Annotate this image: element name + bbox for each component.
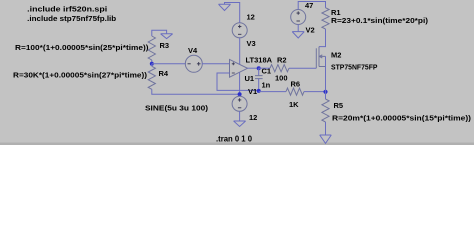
- wire R4 bottom to V1 rail: [152, 89, 240, 94]
- svg-text:100: 100: [275, 73, 288, 82]
- svg-text:LT318A: LT318A: [246, 55, 273, 64]
- svg-text:R5: R5: [334, 101, 344, 110]
- svg-text:U1: U1: [245, 74, 255, 83]
- node junction output/C1/R2: [257, 66, 261, 70]
- svg-text:C1: C1: [262, 66, 272, 75]
- wire feedback loop: [217, 73, 259, 90]
- resistor R4: [148, 66, 155, 89]
- V2 plus mark: [297, 11, 300, 14]
- ground (near R3): [161, 34, 173, 39]
- svg-text:R=100*(1+0.00005*sin(25*pi*tim: R=100*(1+0.00005*sin(25*pi*time)): [15, 43, 149, 52]
- bottom window edge band: [0, 143, 474, 146]
- V3 minus mark: [238, 33, 241, 35]
- transistor M2 arrow stub: [319, 55, 326, 58]
- ground (below V1): [234, 121, 246, 127]
- svg-text:V2: V2: [306, 25, 315, 34]
- wire op-amp V- pin to V1: [239, 73, 241, 95]
- wire feedback to R6: [259, 91, 286, 93]
- resistor R6: [286, 88, 304, 95]
- V1 minus mark: [238, 107, 241, 109]
- wire V2 bottom stub: [297, 25, 299, 32]
- resistor R3: [148, 36, 155, 60]
- svg-text:V4: V4: [188, 46, 198, 55]
- V3 plus mark: [238, 25, 241, 28]
- wire V1 bottom to ground: [239, 111, 241, 121]
- svg-text:.include stp75nf75fp.lib: .include stp75nf75fp.lib: [27, 14, 116, 23]
- wire V3 top to ground: [225, 3, 240, 23]
- wire R5 bottom lead: [325, 122, 327, 135]
- voltage source V1: [232, 96, 247, 111]
- wire V4 to op-amp: [202, 63, 230, 65]
- svg-text:M2: M2: [331, 50, 341, 59]
- svg-text:R=20m*(1+0.00005*sin(15*pi*tim: R=20m*(1+0.00005*sin(15*pi*time)): [332, 113, 472, 122]
- voltage source V2: [291, 10, 306, 25]
- capacitor C1 bottom lead: [258, 79, 260, 91]
- svg-text:R=23+0.1*sin(time*20*pi): R=23+0.1*sin(time*20*pi): [331, 16, 429, 25]
- transistor M2 source stub: [319, 66, 326, 68]
- svg-text:12: 12: [247, 13, 255, 22]
- resistor R1: [322, 8, 329, 29]
- V2 minus mark: [297, 20, 300, 22]
- svg-text:V1: V1: [248, 87, 257, 96]
- node junction M2 source / R5: [323, 90, 327, 94]
- wire M2 source down to node: [325, 56, 327, 91]
- node junction C1 bottom: [257, 89, 261, 93]
- ground (below V2): [292, 32, 304, 38]
- ground (top, V3): [219, 4, 231, 10]
- wire output to R2: [259, 67, 270, 69]
- V1 plus mark: [238, 98, 241, 101]
- wire V2 top rail to R1: [298, 2, 325, 10]
- op-amp U1 triangle: [230, 59, 248, 77]
- svg-text:R4: R4: [159, 69, 169, 78]
- capacitor C1 top lead: [258, 68, 260, 75]
- svg-text:1n: 1n: [262, 80, 271, 89]
- ground (below R5): [320, 135, 332, 143]
- voltage source V4: [185, 55, 202, 72]
- node junction R3/R4: [150, 62, 154, 66]
- voltage source V3: [232, 23, 247, 38]
- svg-text:1K: 1K: [289, 100, 299, 109]
- wire op-amp output: [248, 67, 259, 69]
- svg-text:47: 47: [305, 1, 313, 10]
- svg-text:R2: R2: [277, 55, 287, 64]
- svg-text:12: 12: [249, 113, 257, 122]
- wire R3 top hook: [152, 30, 167, 36]
- node junction V1 top: [238, 92, 242, 96]
- wire R1 to M2 drain: [319, 29, 326, 47]
- op-amp minus input mark: [232, 72, 235, 74]
- wire R2 to M2 gate: [289, 67, 316, 69]
- svg-text:R=30K*(1+0.00005*sin(27*pi*tim: R=30K*(1+0.00005*sin(27*pi*time)): [13, 70, 148, 79]
- svg-text:.tran 0 1 0: .tran 0 1 0: [216, 134, 253, 143]
- wire R5 top lead: [325, 92, 327, 99]
- wire junction to V4: [152, 63, 186, 65]
- wire R3 bottom: [151, 60, 153, 64]
- wire R4 top stub: [151, 64, 153, 67]
- V4 minus mark: [188, 63, 191, 65]
- capacitor C1 plates: [255, 76, 263, 79]
- resistor R5: [322, 99, 329, 122]
- wire V3 bottom to op-amp V+ pin: [239, 38, 241, 65]
- transistor M2 channel bar: [318, 47, 320, 67]
- wire R6 to source node: [304, 91, 326, 93]
- V4 plus mark: [197, 62, 201, 66]
- svg-text:R6: R6: [291, 79, 301, 88]
- svg-text:.include irf520n.spi: .include irf520n.spi: [27, 4, 107, 13]
- svg-text:R3: R3: [160, 41, 170, 50]
- svg-text:SINE(5u 3u 100): SINE(5u 3u 100): [145, 103, 209, 112]
- svg-text:STP75NF75FP: STP75NF75FP: [331, 62, 378, 71]
- op-amp plus input mark: [232, 62, 235, 65]
- resistor R2: [270, 65, 289, 72]
- transistor M2 gate bar: [315, 48, 317, 68]
- svg-text:V3: V3: [247, 39, 256, 48]
